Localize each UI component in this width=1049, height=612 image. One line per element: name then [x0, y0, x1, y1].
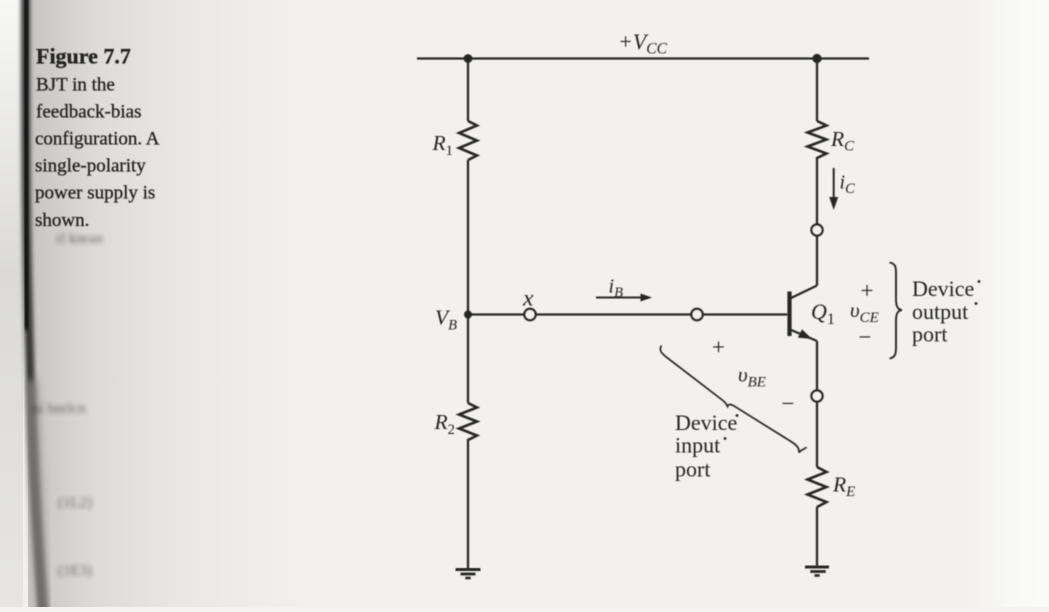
- svg-text:−: −: [782, 391, 795, 416]
- current arrow iC: [829, 168, 838, 210]
- wire RC to collector terminal: [816, 157, 818, 224]
- wire collector terminal to Q1 collector: [816, 236, 818, 286]
- svg-text:rl knran: rl knran: [56, 231, 104, 247]
- transistor Q1: [790, 286, 818, 342]
- current arrow iB: [596, 294, 652, 302]
- brace: device output port: [890, 263, 903, 359]
- brace: device input port (diagonal): [660, 346, 806, 453]
- node collector terminal (open circle): [811, 224, 822, 235]
- wire base: VB node to circle x: [468, 313, 524, 315]
- wire Q1 emitter to emitter terminal: [816, 341, 818, 390]
- node emitter terminal (open circle): [811, 390, 822, 401]
- resistor R1: [459, 121, 477, 160]
- svg-text:feedback-bias: feedback-bias: [36, 102, 142, 123]
- book spine shadow bar: [26, 0, 44, 612]
- svg-text:output: output: [912, 299, 968, 324]
- svg-text:(1L2): (1L2): [58, 495, 92, 511]
- wire emitter terminal to RE: [816, 402, 818, 467]
- wire +Vcc top rail: [417, 57, 869, 59]
- svg-text:power supply is: power supply is: [35, 183, 155, 204]
- resistor RC: [808, 121, 827, 158]
- wire base middle segment: [536, 313, 691, 315]
- wire R1 to R2 (through node VB): [467, 160, 469, 403]
- svg-text:port: port: [675, 457, 710, 482]
- svg-text:+: +: [712, 335, 725, 360]
- svg-text:ni bnrlcn: ni bnrlcn: [32, 401, 86, 417]
- label Device input port: [675, 410, 738, 482]
- node base terminal (open circle): [691, 309, 703, 321]
- svg-text:configuration. A: configuration. A: [35, 129, 160, 150]
- svg-text:port: port: [912, 322, 947, 347]
- wire base to transistor: [703, 313, 788, 315]
- node junction dot Vcc/R1: [464, 54, 473, 63]
- svg-text:input: input: [675, 433, 720, 458]
- svg-text:Device: Device: [675, 410, 737, 435]
- resistor RE: [808, 467, 827, 507]
- ground (left, below R2): [456, 570, 481, 579]
- resistor R2: [459, 403, 477, 440]
- ground (right, below RE): [805, 567, 829, 576]
- svg-text:(1E3): (1E3): [58, 563, 92, 579]
- svg-text:−: −: [859, 325, 872, 350]
- svg-text:BJT in the: BJT in the: [36, 75, 115, 96]
- node x (open circle): [524, 309, 536, 321]
- wire R2 to ground: [467, 439, 469, 569]
- svg-text:+: +: [861, 278, 874, 303]
- wire RE to ground: [816, 507, 818, 566]
- svg-text:single-polarity: single-polarity: [35, 156, 146, 177]
- node junction dot Vcc/RC: [812, 54, 821, 63]
- svg-text:x: x: [522, 286, 534, 312]
- wire left branch: rail to R1: [467, 59, 469, 122]
- label Device output port: [912, 276, 980, 347]
- svg-text:Device: Device: [912, 276, 974, 301]
- ghost bleed-through text: [32, 231, 104, 579]
- node junction dot VB: [464, 311, 472, 319]
- wire right branch: rail to RC: [816, 59, 818, 122]
- figure caption: [35, 44, 160, 232]
- svg-text:shown.: shown.: [35, 210, 89, 231]
- svg-text:Figure 7.7: Figure 7.7: [36, 44, 131, 69]
